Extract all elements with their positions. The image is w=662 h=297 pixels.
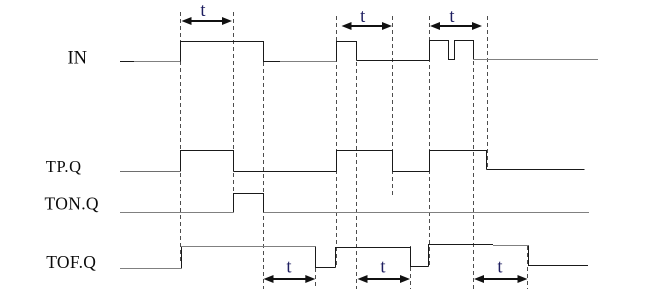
dashed line 11 (TP.Q fall 3) — [487, 16, 489, 170]
svg-text:t: t — [360, 7, 366, 27]
dashed line 4 (TOF.Q fall 1) — [315, 247, 317, 289]
arrow t measure 6 (bottom, IN fall 3 to TOF fall 3) — [474, 275, 528, 283]
wire IN baseline left (gray) — [134, 61, 180, 63]
wire IN baseline left start (black) — [120, 61, 134, 63]
dashed line 6 (IN fall 2) — [356, 41, 358, 289]
arrow t measure 2 (top, IN rise 2 to TP fall 2) — [342, 22, 393, 30]
svg-text:t: t — [200, 1, 206, 21]
wire TOF.Q rise 1 — [181, 247, 183, 269]
dashed line 10 (IN fall 3) — [473, 40, 475, 289]
dashed line 7 (TP.Q fall 2) — [392, 16, 394, 196]
dashed line 5 (IN rise 2) — [336, 16, 338, 268]
wire TOF.Q baseline left (gray) — [120, 268, 181, 270]
dashed line 3 (IN fall 1) — [263, 41, 265, 289]
wire IN pulse 3 with notch — [430, 41, 474, 61]
wire TOF.Q fall 1 and low — [316, 247, 336, 268]
svg-text:t: t — [286, 258, 292, 278]
svg-text:IN: IN — [68, 49, 88, 69]
dashed line 2 (TP.Q fall 1 / t end) — [233, 12, 235, 213]
svg-text:t: t — [449, 7, 455, 27]
dashed line 1 (IN rise 1 / t start) — [180, 12, 182, 264]
wire TP.Q pulse 1 — [181, 151, 234, 172]
arrow t measure 4 (bottom, IN fall 1 to TOF fall 1) — [264, 275, 316, 283]
wire TOF.Q high 3 right part (gray) — [493, 245, 529, 247]
wire TON.Q baseline left (gray) — [120, 212, 233, 214]
svg-text:t: t — [380, 258, 386, 278]
dashed line 9 (IN rise 3) — [429, 16, 431, 266]
wire IN baseline right (gray) — [474, 59, 599, 61]
arrow t measure 5 (bottom, IN fall 2 to TOF fall 2) — [358, 275, 411, 283]
wire TOF.Q fall 3 and baseline right — [529, 246, 589, 266]
wire TON.Q pulse — [234, 194, 264, 213]
dashed line 8 (TOF.Q fall 2) — [410, 246, 412, 289]
wire TOF.Q pulse 2 — [336, 248, 429, 268]
wire TP.Q baseline right — [487, 169, 585, 171]
wire TP.Q pulse 2 — [337, 151, 393, 172]
wire TP.Q low between pulse 1 and 2 — [234, 171, 337, 173]
wire TP.Q pulse 3 — [430, 151, 487, 172]
arrow t measure 1 (top, IN rise 1 to TP fall 1) — [182, 17, 233, 25]
wire TP.Q baseline left (gray) — [120, 171, 180, 173]
wire TOF.Q high 1 (gray) — [182, 246, 316, 248]
arrow t measure 3 (top, IN rise 3 to TP fall 3) — [430, 22, 482, 30]
dashed line 12 (TOF.Q fall 3) — [527, 246, 529, 289]
wire TON.Q baseline right (gray) — [264, 212, 590, 214]
wire IN low between pulse 2 and 3 — [357, 60, 430, 62]
wire IN pulse 2 — [337, 42, 357, 62]
svg-text:t: t — [497, 258, 503, 278]
wire TP.Q low between pulse 2 and 3 — [393, 171, 430, 173]
svg-text:TP.Q: TP.Q — [46, 157, 82, 176]
wire IN pulse 1 — [181, 42, 281, 62]
svg-text:TON.Q: TON.Q — [45, 194, 99, 214]
svg-text:TOF.Q: TOF.Q — [46, 252, 96, 272]
wire TOF.Q pulse 3 — [429, 245, 494, 267]
wire IN low between pulse 1 and 2 (gray) — [280, 61, 337, 63]
